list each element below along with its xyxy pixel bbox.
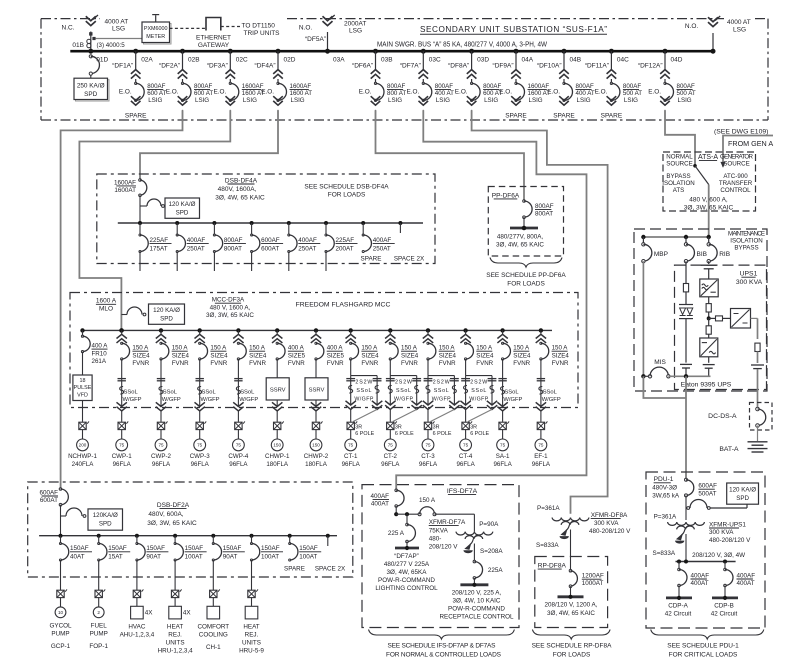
svg-text:150 A: 150 A (513, 345, 530, 352)
svg-text:SIZE4: SIZE4 (439, 352, 457, 359)
svg-text:SEE SCHEDULE PP-DF6A: SEE SCHEDULE PP-DF6A (486, 272, 566, 279)
svg-text:96FLA: 96FLA (493, 461, 512, 468)
svg-text:96FLA: 96FLA (419, 461, 438, 468)
svg-text:120 KA/Ø: 120 KA/Ø (729, 486, 756, 493)
svg-text:225AF: 225AF (150, 237, 169, 244)
svg-text:FVNR: FVNR (210, 360, 227, 367)
svg-text:“DF6A”: “DF6A” (352, 63, 373, 70)
svg-text:LSIG: LSIG (529, 97, 543, 104)
svg-text:SPARE: SPARE (125, 113, 147, 120)
svg-text:800AF: 800AF (387, 83, 405, 90)
svg-text:75: 75 (236, 443, 242, 448)
svg-text:600AF: 600AF (261, 237, 280, 244)
svg-text:MLO: MLO (99, 305, 113, 312)
svg-text:CDP-B: CDP-B (714, 603, 734, 610)
svg-text:SEE SCHEDULE DSB-DF4A: SEE SCHEDULE DSB-DF4A (304, 183, 389, 190)
svg-text:1600AT: 1600AT (114, 187, 136, 194)
svg-text:TO DT1150: TO DT1150 (242, 23, 276, 30)
svg-text:“DF8A”: “DF8A” (448, 63, 469, 70)
svg-text:CONTROL: CONTROL (720, 187, 751, 194)
svg-text:E.O.: E.O. (407, 88, 420, 95)
svg-text:FVNR: FVNR (327, 360, 344, 367)
svg-text:150AF: 150AF (299, 545, 318, 552)
svg-text:42 Circuit: 42 Circuit (665, 610, 692, 617)
svg-text:SIZE4: SIZE4 (132, 352, 150, 359)
svg-text:300 KVA: 300 KVA (594, 520, 619, 527)
svg-text:03C: 03C (429, 56, 441, 63)
svg-text:FVNR: FVNR (513, 360, 530, 367)
svg-text:W/GFP: W/GFP (123, 397, 142, 403)
svg-text:208/120 V: 208/120 V (429, 543, 459, 550)
svg-text:150AF: 150AF (185, 545, 204, 552)
svg-text:COMFORT: COMFORT (197, 623, 229, 630)
svg-text:CH-1: CH-1 (206, 644, 221, 651)
svg-text:E.O.: E.O. (455, 88, 468, 95)
svg-text:SPD: SPD (160, 316, 173, 323)
svg-text:75: 75 (463, 443, 469, 448)
svg-text:96FLA: 96FLA (113, 461, 132, 468)
svg-text:400 A: 400 A (288, 345, 305, 352)
svg-text:2: 2 (97, 610, 100, 615)
svg-text:180FLA: 180FLA (266, 461, 289, 468)
svg-text:ISOLATION: ISOLATION (662, 180, 695, 187)
svg-text:S=833A: S=833A (536, 542, 559, 549)
svg-text:SSoL: SSoL (202, 389, 217, 395)
svg-text:600 AT: 600 AT (147, 90, 166, 97)
svg-text:480/277 V 225A: 480/277 V 225A (384, 561, 430, 568)
svg-text:N.C.: N.C. (62, 24, 75, 31)
svg-text:240FLA: 240FLA (72, 461, 95, 468)
svg-text:SA-1: SA-1 (496, 453, 510, 460)
svg-text:TRANSFER: TRANSFER (719, 180, 753, 187)
svg-text:SPARE: SPARE (284, 566, 305, 573)
svg-text:03B: 03B (381, 56, 393, 63)
svg-text:600AF: 600AF (698, 483, 717, 490)
svg-text:500AT: 500AT (698, 490, 716, 497)
svg-text:10: 10 (58, 610, 64, 615)
svg-text:96FLA: 96FLA (229, 461, 248, 468)
svg-text:REJ.: REJ. (245, 631, 259, 638)
svg-text:3Ø, 4W, 65KA: 3Ø, 4W, 65KA (387, 569, 428, 576)
svg-text:480-208/120 V: 480-208/120 V (589, 528, 631, 535)
svg-text:MCC-DF3A: MCC-DF3A (212, 297, 245, 304)
svg-text:W/GFP: W/GFP (201, 397, 220, 403)
svg-text:FOR LOADS: FOR LOADS (553, 652, 591, 659)
svg-text:250AT: 250AT (187, 246, 205, 253)
svg-text:BYPASS: BYPASS (734, 245, 758, 252)
svg-text:100AT: 100AT (185, 554, 203, 561)
svg-text:4X: 4X (183, 610, 192, 617)
svg-text:E.O.: E.O. (595, 88, 608, 95)
svg-text:FVNR: FVNR (288, 360, 305, 367)
svg-text:1600AF: 1600AF (528, 83, 550, 90)
svg-text:FROM GEN A: FROM GEN A (728, 139, 773, 148)
svg-text:FOR LOADS: FOR LOADS (507, 281, 545, 288)
svg-text:75: 75 (197, 443, 203, 448)
svg-text:LSG: LSG (112, 26, 125, 33)
svg-text:2S2W: 2S2W (433, 379, 450, 385)
svg-text:E.O.: E.O. (499, 88, 512, 95)
svg-text:BAT-A: BAT-A (719, 446, 739, 453)
svg-text:225AF: 225AF (336, 237, 355, 244)
svg-text:400AF: 400AF (691, 572, 710, 579)
svg-text:SPARE: SPARE (601, 113, 623, 120)
svg-text:LSIG: LSIG (388, 97, 402, 104)
svg-text:MIS: MIS (654, 359, 666, 366)
svg-text:3R: 3R (355, 424, 362, 430)
svg-text:POW-R-COMMAND: POW-R-COMMAND (378, 577, 435, 584)
svg-text:250 KA/Ø: 250 KA/Ø (77, 83, 105, 90)
svg-text:SSoL: SSoL (504, 389, 519, 395)
svg-text:800AF: 800AF (623, 83, 641, 90)
svg-text:POW-R-COMMAND: POW-R-COMMAND (448, 605, 505, 612)
svg-text:150 A: 150 A (401, 345, 418, 352)
svg-text:150AF: 150AF (108, 545, 127, 552)
svg-text:FVNR: FVNR (552, 360, 569, 367)
svg-text:MBP: MBP (654, 251, 668, 258)
svg-text:FREEDOM FLASHGARD MCC: FREEDOM FLASHGARD MCC (296, 301, 391, 308)
svg-text:6 POLE: 6 POLE (470, 431, 489, 437)
svg-text:6 POLE: 6 POLE (433, 431, 452, 437)
svg-text:“DF1A”: “DF1A” (112, 63, 133, 70)
svg-text:SEE SCHEDULE RP-DF8A: SEE SCHEDULE RP-DF8A (532, 642, 612, 649)
svg-text:E.O.: E.O. (119, 88, 132, 95)
svg-text:2S2W: 2S2W (395, 379, 412, 385)
svg-text:3R: 3R (470, 424, 477, 430)
svg-text:1600 AT: 1600 AT (290, 90, 313, 97)
svg-text:FOR CRITICAL LOADS: FOR CRITICAL LOADS (669, 652, 738, 659)
svg-text:800AF: 800AF (194, 83, 212, 90)
svg-text:LSIG: LSIG (436, 97, 450, 104)
svg-text:LSIG: LSIG (195, 97, 209, 104)
svg-text:150: 150 (312, 443, 320, 448)
svg-text:UPS1: UPS1 (740, 271, 758, 278)
svg-text:75: 75 (425, 443, 431, 448)
svg-text:SIZE4: SIZE4 (476, 352, 494, 359)
svg-text:LSIG: LSIG (484, 97, 498, 104)
svg-text:1000AT: 1000AT (582, 580, 604, 587)
svg-text:2000AT: 2000AT (344, 20, 366, 27)
svg-text:LSIG: LSIG (291, 97, 305, 104)
svg-text:15AT: 15AT (108, 554, 123, 561)
svg-text:SPD: SPD (176, 209, 189, 216)
svg-text:75: 75 (538, 443, 544, 448)
svg-text:SEE SCHEDULE PDU-1: SEE SCHEDULE PDU-1 (667, 642, 739, 649)
svg-text:SPACE 2X: SPACE 2X (394, 255, 425, 262)
svg-text:W/GFP: W/GFP (432, 397, 451, 403)
svg-text:02B: 02B (188, 56, 200, 63)
svg-text:400 AT: 400 AT (435, 90, 454, 97)
svg-text:LSG: LSG (349, 28, 362, 35)
svg-text:1200AF: 1200AF (582, 573, 604, 580)
svg-text:SSRV: SSRV (309, 388, 325, 394)
svg-text:RP-DF8A: RP-DF8A (538, 563, 567, 570)
svg-text:225 A: 225 A (388, 530, 405, 537)
svg-text:150 A: 150 A (419, 497, 436, 504)
svg-text:PULSE: PULSE (74, 385, 92, 391)
svg-text:96FLA: 96FLA (381, 461, 400, 468)
svg-text:120KA/Ø: 120KA/Ø (93, 512, 118, 519)
svg-text:1600AF: 1600AF (114, 179, 136, 186)
svg-text:208/120 V, 225 A,: 208/120 V, 225 A, (452, 589, 502, 596)
svg-text:SSoL: SSoL (163, 389, 178, 395)
svg-text:03A: 03A (333, 56, 345, 63)
svg-text:75: 75 (119, 443, 125, 448)
svg-text:SPARE: SPARE (505, 113, 527, 120)
svg-text:SSoL: SSoL (471, 388, 486, 394)
svg-text:03D: 03D (477, 56, 489, 63)
svg-text:SOURCE: SOURCE (723, 160, 749, 167)
svg-text:SPD: SPD (84, 91, 98, 98)
svg-text:SIZE4: SIZE4 (361, 352, 379, 359)
svg-text:E.O.: E.O. (359, 88, 372, 95)
svg-text:(3) 4000:5: (3) 4000:5 (97, 42, 126, 49)
svg-text:800AF: 800AF (435, 83, 453, 90)
svg-text:SSoL: SSoL (434, 388, 449, 394)
svg-text:S=208A: S=208A (480, 548, 503, 555)
svg-text:480-208/120 V: 480-208/120 V (709, 537, 751, 544)
svg-text:“DF3A”: “DF3A” (207, 63, 228, 70)
svg-text:96FLA: 96FLA (152, 461, 171, 468)
svg-text:04C: 04C (617, 56, 629, 63)
svg-text:SSoL: SSoL (356, 388, 371, 394)
svg-text:2S2W: 2S2W (470, 379, 487, 385)
svg-text:“DF7A”: “DF7A” (400, 63, 421, 70)
svg-text:BYPASS: BYPASS (666, 173, 690, 180)
svg-text:MAIN SWGR. BUS “A” 85 KA, 480/: MAIN SWGR. BUS “A” 85 KA, 480/277 V, 400… (377, 41, 547, 48)
svg-text:MAINTENANCE: MAINTENANCE (728, 230, 765, 237)
svg-text:W/GFP: W/GFP (542, 397, 561, 403)
svg-text:SSoL: SSoL (240, 389, 255, 395)
svg-text:SIZE4: SIZE4 (552, 352, 570, 359)
svg-text:TRIP UNITS: TRIP UNITS (244, 30, 281, 37)
svg-text:90AT: 90AT (223, 554, 238, 561)
svg-text:XFMR-UPS1: XFMR-UPS1 (709, 521, 746, 528)
svg-text:4000 AT: 4000 AT (105, 18, 129, 25)
svg-text:GENERATOR: GENERATOR (720, 153, 754, 160)
svg-text:800AF: 800AF (535, 203, 554, 210)
svg-text:E.O.: E.O. (166, 88, 179, 95)
svg-text:“DF10A”: “DF10A” (537, 63, 562, 70)
svg-text:(SEE DWG E109): (SEE DWG E109) (714, 129, 768, 136)
svg-text:PUMP: PUMP (51, 630, 69, 637)
svg-text:90AT: 90AT (146, 554, 161, 561)
svg-text:3Ø, 4W, 65 KAIC: 3Ø, 4W, 65 KAIC (215, 195, 265, 202)
svg-text:75: 75 (388, 443, 394, 448)
svg-text:W/GFP: W/GFP (354, 397, 373, 403)
svg-text:ETHERNET: ETHERNET (196, 34, 231, 41)
svg-text:XFMR-DF8A: XFMR-DF8A (591, 512, 628, 519)
svg-text:150 A: 150 A (210, 345, 227, 352)
svg-text:AHU-1,2,3,4: AHU-1,2,3,4 (120, 631, 155, 638)
svg-text:LSIG: LSIG (678, 97, 692, 104)
svg-text:DSB-DF2A: DSB-DF2A (157, 502, 190, 509)
svg-text:04B: 04B (570, 56, 582, 63)
svg-text:400AF: 400AF (187, 237, 206, 244)
svg-text:400 AT: 400 AT (576, 90, 595, 97)
svg-text:500 AT: 500 AT (623, 90, 642, 97)
svg-text:02A: 02A (141, 56, 153, 63)
svg-text:600AT: 600AT (40, 497, 58, 504)
svg-text:SPARE: SPARE (361, 255, 382, 262)
svg-text:208/120 V, 3Ø, 4W: 208/120 V, 3Ø, 4W (692, 552, 745, 559)
svg-text:400AF: 400AF (370, 493, 389, 500)
svg-text:40AT: 40AT (70, 554, 85, 561)
svg-text:FOR NORMAL & CONTROLLED LOADS: FOR NORMAL & CONTROLLED LOADS (386, 652, 502, 659)
svg-text:UNITS: UNITS (166, 639, 185, 646)
svg-text:3Ø, 4W, 10 KAIC: 3Ø, 4W, 10 KAIC (453, 597, 501, 604)
svg-text:W/GFP: W/GFP (162, 397, 181, 403)
svg-text:480V, 600A,: 480V, 600A, (148, 511, 183, 518)
svg-text:480V-3Ø: 480V-3Ø (652, 485, 677, 492)
svg-text:FOP-1: FOP-1 (89, 643, 108, 650)
svg-text:HEAT: HEAT (167, 623, 183, 630)
svg-text:75KVA: 75KVA (429, 527, 449, 534)
svg-text:400AT: 400AT (737, 580, 755, 587)
svg-text:600AT: 600AT (261, 246, 279, 253)
svg-text:ISOLATION: ISOLATION (730, 238, 763, 245)
svg-text:FR10: FR10 (92, 350, 108, 357)
svg-text:E.O.: E.O. (261, 88, 274, 95)
svg-text:PXM6000: PXM6000 (144, 26, 168, 32)
svg-text:3Ø, 4W, 65 KAIC: 3Ø, 4W, 65 KAIC (496, 242, 544, 249)
svg-text:HRU-5-9: HRU-5-9 (239, 647, 264, 654)
svg-text:96FLA: 96FLA (191, 461, 210, 468)
svg-text:SIZE4: SIZE4 (210, 352, 228, 359)
svg-text:300 KVA: 300 KVA (736, 279, 763, 286)
svg-text:W/GFP: W/GFP (239, 397, 258, 403)
svg-text:PDU-1: PDU-1 (654, 476, 674, 483)
svg-text:150AF: 150AF (146, 545, 165, 552)
svg-text:S=833A: S=833A (653, 550, 676, 557)
svg-text:FVNR: FVNR (439, 360, 456, 367)
svg-text:GATEWAY: GATEWAY (198, 42, 230, 49)
svg-text:COOLING: COOLING (199, 631, 228, 638)
svg-text:SIZE5: SIZE5 (288, 352, 306, 359)
svg-text:400AF: 400AF (373, 237, 392, 244)
svg-text:800 AT: 800 AT (387, 90, 406, 97)
svg-text:SIZE5: SIZE5 (327, 352, 345, 359)
svg-text:GYCOL: GYCOL (49, 622, 72, 629)
svg-text:150 A: 150 A (439, 345, 456, 352)
svg-text:500 AT: 500 AT (677, 90, 696, 97)
svg-text:P=361A: P=361A (654, 514, 677, 521)
svg-text:W/GFP: W/GFP (503, 397, 522, 403)
svg-text:CWP-4: CWP-4 (228, 453, 248, 460)
svg-text:3Ø, 4W, 65 KAIC: 3Ø, 4W, 65 KAIC (547, 610, 595, 617)
svg-text:LSIG: LSIG (243, 97, 257, 104)
svg-text:E.O.: E.O. (214, 88, 227, 95)
svg-text:N.O.: N.O. (299, 24, 313, 31)
svg-text:W/GFP: W/GFP (394, 397, 413, 403)
svg-text:96FLA: 96FLA (532, 461, 551, 468)
svg-text:600 AT: 600 AT (194, 90, 213, 97)
svg-text:800AT: 800AT (224, 246, 242, 253)
svg-text:CT-3: CT-3 (421, 453, 435, 460)
svg-text:96FLA: 96FLA (456, 461, 475, 468)
svg-text:ATS-A: ATS-A (698, 154, 718, 161)
svg-text:“DF11A”: “DF11A” (585, 63, 609, 70)
svg-text:400 A: 400 A (92, 343, 109, 350)
svg-text:BIB: BIB (697, 251, 707, 258)
svg-text:SIZE4: SIZE4 (513, 352, 531, 359)
svg-text:480-: 480- (429, 535, 442, 542)
svg-text:150 A: 150 A (132, 345, 149, 352)
svg-text:4X: 4X (145, 610, 154, 617)
svg-text:CWP-1: CWP-1 (112, 453, 132, 460)
svg-text:75: 75 (500, 443, 506, 448)
svg-text:3R: 3R (433, 424, 440, 430)
svg-text:3Ø, 3W, 65 KAIC: 3Ø, 3W, 65 KAIC (147, 520, 197, 527)
svg-text:400AF: 400AF (737, 572, 756, 579)
svg-text:CWP-3: CWP-3 (190, 453, 210, 460)
svg-text:FVNR: FVNR (361, 360, 378, 367)
svg-text:LIGHTING CONTROL: LIGHTING CONTROL (375, 585, 438, 592)
svg-text:SEE SCHEDULE IFS-DF7AP & DF7AS: SEE SCHEDULE IFS-DF7AP & DF7AS (388, 642, 497, 649)
svg-text:CWP-2: CWP-2 (151, 453, 171, 460)
svg-text:HEAT: HEAT (243, 623, 259, 630)
svg-text:Eaton 9395 UPS: Eaton 9395 UPS (681, 382, 732, 389)
svg-text:SSRV: SSRV (270, 388, 286, 394)
svg-text:“DF12A”: “DF12A” (638, 63, 663, 70)
svg-text:1600 A: 1600 A (96, 298, 117, 305)
svg-text:CT-2: CT-2 (384, 453, 398, 460)
svg-text:SOURCE: SOURCE (666, 160, 692, 167)
svg-text:ATC-900: ATC-900 (723, 173, 748, 180)
svg-text:E.O.: E.O. (648, 88, 661, 95)
svg-text:LSIG: LSIG (148, 97, 162, 104)
svg-text:SSoL: SSoL (543, 389, 558, 395)
svg-text:100AT: 100AT (261, 554, 279, 561)
svg-text:300 KVA: 300 KVA (709, 529, 734, 536)
svg-text:NORMAL: NORMAL (666, 153, 693, 160)
svg-text:75: 75 (348, 443, 354, 448)
svg-text:DC-DS-A: DC-DS-A (708, 413, 737, 420)
svg-text:150AF: 150AF (261, 545, 280, 552)
svg-text:DSB-DF4A: DSB-DF4A (225, 177, 258, 184)
svg-text:100AT: 100AT (299, 554, 317, 561)
svg-text:120 KA/Ø: 120 KA/Ø (169, 201, 196, 208)
svg-text:480V, 1600A,: 480V, 1600A, (218, 186, 257, 193)
svg-text:RECEPTACLE CONTROL: RECEPTACLE CONTROL (439, 613, 514, 620)
svg-text:PP-DF6A: PP-DF6A (492, 192, 520, 199)
svg-text:REJ.: REJ. (168, 631, 182, 638)
svg-text:SIZE4: SIZE4 (401, 352, 419, 359)
svg-text:IFS-DF7A: IFS-DF7A (447, 488, 478, 495)
svg-text:2S2W: 2S2W (355, 379, 372, 385)
svg-text:PUMP: PUMP (90, 630, 108, 637)
svg-text:N.O.: N.O. (685, 23, 699, 30)
svg-text:18: 18 (80, 378, 86, 384)
svg-text:42 Circuit: 42 Circuit (711, 610, 738, 617)
svg-text:150AF: 150AF (223, 545, 242, 552)
svg-text:“DF4A”: “DF4A” (255, 63, 276, 70)
svg-text:400 A: 400 A (327, 345, 344, 352)
svg-text:400AT: 400AT (371, 500, 389, 507)
svg-text:METER: METER (146, 34, 165, 40)
svg-text:FVNR: FVNR (476, 360, 493, 367)
svg-text:250AT: 250AT (373, 246, 391, 253)
svg-text:175AT: 175AT (150, 246, 168, 253)
svg-text:VFD: VFD (77, 392, 88, 398)
svg-text:800AF: 800AF (147, 83, 165, 90)
svg-text:W/GFP: W/GFP (469, 397, 488, 403)
svg-text:“DF5A”: “DF5A” (305, 36, 326, 43)
svg-text:180FLA: 180FLA (305, 461, 328, 468)
svg-text:150: 150 (273, 443, 281, 448)
svg-text:SECONDARY UNIT SUBSTATION “SUS: SECONDARY UNIT SUBSTATION “SUS-F1A” (420, 25, 607, 34)
svg-text:CT-1: CT-1 (344, 453, 358, 460)
